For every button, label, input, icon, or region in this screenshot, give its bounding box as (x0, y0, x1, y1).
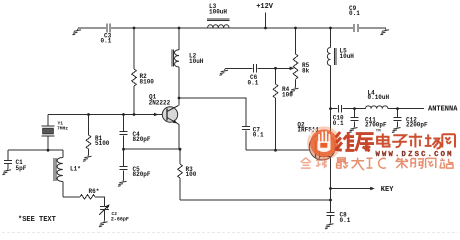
svg-text:0.1: 0.1 (101, 38, 112, 45)
svg-text:2-66pF: 2-66pF (111, 217, 129, 223)
svg-text:L1*: L1* (70, 166, 81, 173)
svg-text:0.1: 0.1 (333, 120, 344, 127)
svg-text:100: 100 (282, 91, 293, 98)
svg-text:2200pF: 2200pF (406, 121, 428, 128)
svg-text:KEY: KEY (381, 186, 394, 194)
svg-text:5pF: 5pF (16, 165, 27, 172)
svg-text:820pF: 820pF (133, 171, 151, 178)
svg-text:0.1: 0.1 (248, 79, 259, 86)
svg-text:*SEE TEXT: *SEE TEXT (18, 216, 56, 224)
svg-text:TM: TM (376, 130, 381, 134)
svg-text:10uH: 10uH (189, 58, 204, 65)
svg-text:5100: 5100 (95, 140, 110, 147)
svg-text:ANTENNA: ANTENNA (428, 106, 458, 114)
svg-text:WWW.DZSC.COM: WWW.DZSC.COM (376, 151, 454, 159)
svg-text:7MHz: 7MHz (57, 126, 68, 132)
svg-text:100: 100 (186, 171, 197, 178)
svg-text:2700pF: 2700pF (365, 121, 387, 128)
svg-text:8100: 8100 (140, 78, 155, 85)
svg-text:10uH: 10uH (340, 53, 355, 60)
svg-text:100uH: 100uH (209, 8, 227, 15)
svg-text:820pF: 820pF (133, 136, 151, 143)
svg-text:+12V: +12V (256, 3, 274, 11)
svg-text:0.10uH: 0.10uH (368, 94, 390, 101)
svg-text:0.1: 0.1 (349, 10, 360, 17)
svg-text:R6*: R6* (89, 188, 100, 195)
svg-text:0.1: 0.1 (340, 217, 351, 224)
svg-text:0.1: 0.1 (253, 132, 264, 139)
svg-text:8k: 8k (302, 67, 310, 74)
svg-text:2N2222: 2N2222 (149, 100, 171, 107)
